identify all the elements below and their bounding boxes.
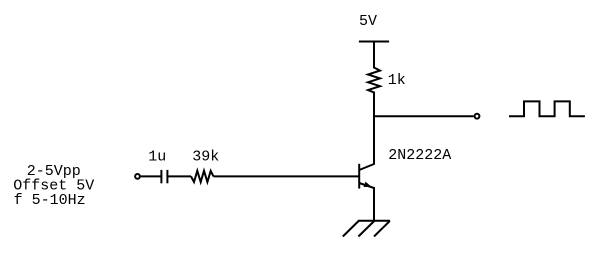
svg-text:39k: 39k (192, 148, 219, 165)
svg-text:2N2222A: 2N2222A (388, 147, 451, 164)
svg-text:f 5-10Hz: f 5-10Hz (14, 192, 86, 209)
svg-text:1k: 1k (388, 72, 406, 89)
svg-text:5V: 5V (359, 13, 377, 30)
svg-text:1u: 1u (148, 148, 166, 165)
